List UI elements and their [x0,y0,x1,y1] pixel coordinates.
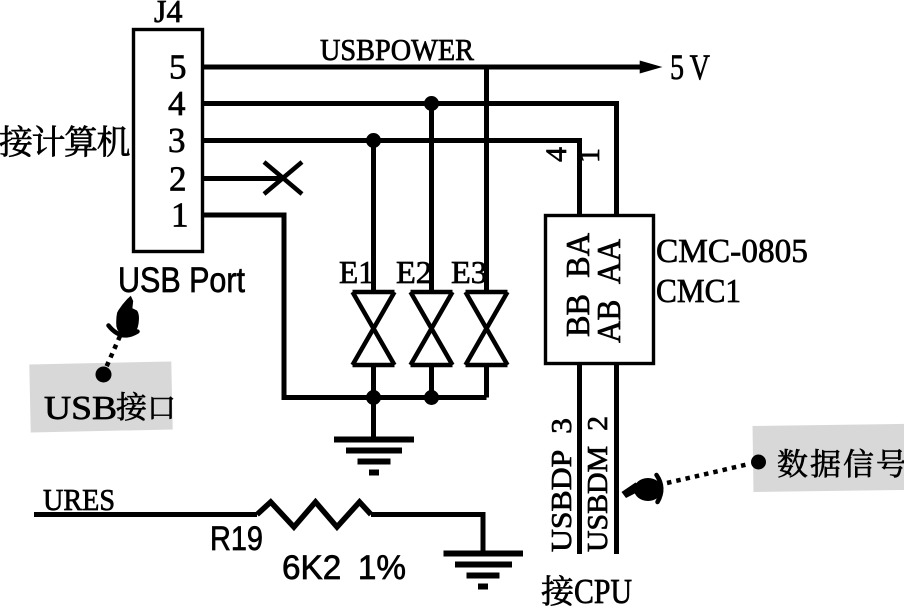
svg-text:6K2 1%: 6K2 1% [282,549,406,587]
resistor R19 zigzag [257,502,371,527]
wire E3 vertical from USBPOWER [484,67,489,292]
svg-text:E1: E1 [339,254,374,290]
svg-text:5 V: 5 V [670,47,710,87]
TVS diode E1 bowtie [353,292,395,365]
callout hand pointing left [622,475,663,502]
note box USB接口 [29,361,172,432]
wire E1 bottom stem [371,365,376,400]
svg-text:USBDM 2: USBDM 2 [582,416,614,552]
arrowhead 5V [641,62,660,73]
wire pin2 stub [202,176,282,181]
callout dot on data note [751,455,766,470]
common-mode choke CMC1 box [546,216,654,364]
wire E1 top stem [371,141,376,293]
svg-text:1: 1 [171,196,189,235]
svg-text:E2: E2 [396,254,432,290]
callout dot on USB note [96,367,112,383]
wire USBDM from CMC pin2 [614,364,619,554]
note box 数据信号 [753,424,904,492]
label 接CPU [542,575,573,605]
junction dot E1 top [366,133,381,148]
wire pin1 down and along diode bottoms [202,215,487,398]
callout hand pointing up [109,296,139,336]
svg-text:J4: J4 [154,0,182,29]
svg-text:3: 3 [168,121,186,160]
svg-text:CPU: CPU [574,572,632,608]
svg-text:CMC-0805: CMC-0805 [656,233,808,270]
svg-text:USB: USB [44,390,117,427]
svg-text:4: 4 [540,147,573,162]
connector J4 box [134,30,203,252]
TVS diode E3 bowtie [466,292,508,365]
wire E2 bottom stem [429,365,434,400]
wire resistor to ground [371,515,483,553]
svg-text:URES: URES [43,482,115,517]
svg-text:E3: E3 [451,254,487,290]
wire E3 bottom stem [484,365,489,398]
svg-text:4: 4 [168,84,186,123]
junction dot E2 top [424,96,439,111]
dotted leader to USB note [105,336,120,370]
note text 数据信号 [778,449,904,478]
svg-text:5: 5 [169,48,187,87]
ground symbol lower right [444,554,524,587]
wire pin3 to CMC pin4 [202,141,580,217]
wire E2 top stem [429,104,434,293]
svg-text:1: 1 [573,148,606,163]
junction dot E1 bottom [366,390,381,405]
svg-text:2: 2 [169,160,187,199]
dotted leader to data note [667,464,749,483]
no-connect X on pin2 [264,162,302,194]
wire USBDP from CMC pin3 [577,364,582,554]
svg-text:CMC1: CMC1 [656,273,741,310]
svg-text:USBDP 3: USBDP 3 [546,418,578,552]
label 接计算机 [0,125,130,156]
wire pin5 USBPOWER to 5V arrow [202,65,644,70]
ground symbol under diodes [334,400,414,473]
svg-text:USB Port: USB Port [118,261,245,300]
svg-text:R19: R19 [210,520,263,558]
junction dot E2 bottom [424,390,439,405]
wire pin4 to CMC pin1 [202,104,617,217]
svg-text:USBPOWER: USBPOWER [320,32,474,67]
TVS diode E2 bowtie [411,292,453,365]
wire URES to resistor [34,512,257,517]
svg-text:AB AA: AB AA [591,239,628,343]
